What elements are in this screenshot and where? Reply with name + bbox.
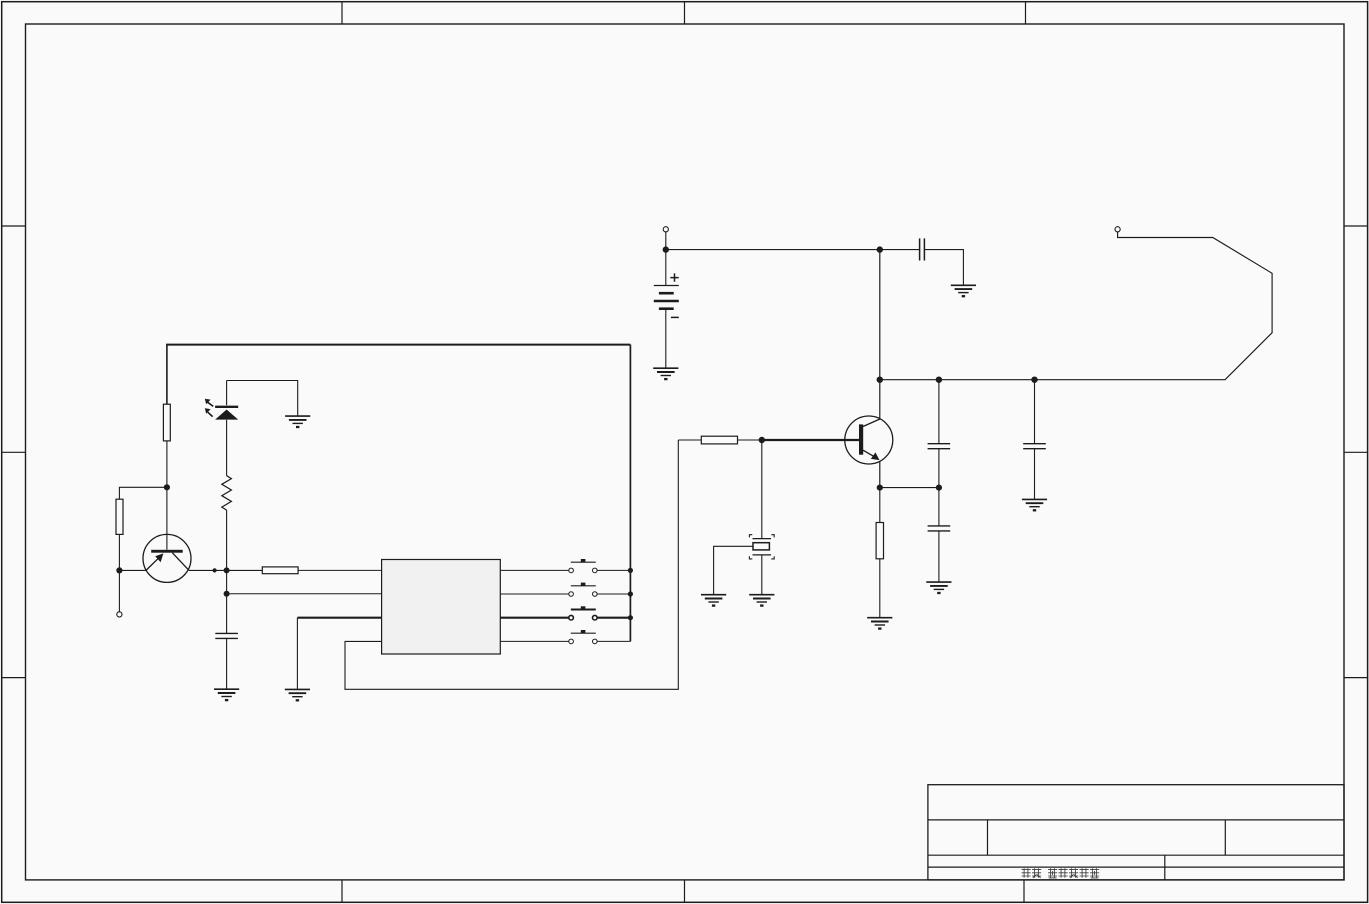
wire IC to switch S3 xyxy=(500,617,569,619)
title block row lines xyxy=(928,820,1344,867)
transistor Q1 (PNP) xyxy=(143,534,191,582)
capacitor C5 xyxy=(215,633,238,638)
wire IC to switch S1 xyxy=(500,569,569,571)
ground (C5) xyxy=(214,689,239,700)
wire R2 down to terminal xyxy=(118,534,120,611)
node LED chain / line1 xyxy=(224,567,230,573)
capacitor C3 (feedback lower) xyxy=(928,526,951,531)
wire R6 down through nodes xyxy=(226,510,228,633)
crystal Y1 (SAW resonator) xyxy=(749,535,774,559)
switch S1 (push button) xyxy=(569,559,597,573)
node base junction xyxy=(164,484,170,490)
wire to Q1 emitter xyxy=(119,569,146,571)
node RF rail mid xyxy=(936,377,942,383)
LED D1 (indicator) xyxy=(205,399,238,420)
wire R5 to ground xyxy=(879,559,881,618)
wire LED anode top xyxy=(226,381,228,406)
resistor R3 (base series) xyxy=(701,436,737,444)
wire emitter node to C3 xyxy=(938,488,940,526)
antenna wire loop xyxy=(880,232,1272,380)
left border tick marks xyxy=(2,226,26,678)
node line2 junction xyxy=(224,591,230,597)
wire to R3 left xyxy=(678,439,701,441)
node emitter junction left xyxy=(116,567,122,573)
transistor Q2 (NPN oscillator) xyxy=(845,416,893,464)
wire VCC rail top (bold) xyxy=(166,344,630,346)
wire S1 to VCC rail xyxy=(597,569,630,571)
wire to capacitor C1 xyxy=(880,249,920,251)
node emitter junction xyxy=(877,485,883,491)
node rail/S2 xyxy=(628,591,633,596)
wire R4 to IC pin line 1 xyxy=(298,569,382,571)
wire IC to switch S4 xyxy=(500,640,569,642)
ground (crystal) xyxy=(749,595,774,606)
wire IC pin line 2 xyxy=(227,593,382,595)
title text 鎖文遙控馬達組 xyxy=(1022,868,1100,878)
wire Q2 base (bold) xyxy=(762,439,859,441)
wire VCC rail left drop xyxy=(166,345,168,405)
wire C5 to ground xyxy=(226,638,228,689)
ground (crystal case) xyxy=(701,595,726,606)
wire S4 to VCC rail xyxy=(597,640,630,642)
wire B+ stub xyxy=(665,232,667,250)
wire emitter to C3 xyxy=(880,487,939,489)
node rail/S1 xyxy=(628,568,633,573)
resistor R4 (line 1 series) xyxy=(262,567,298,574)
wire to R2 xyxy=(119,487,166,499)
resistor R2 xyxy=(116,499,123,534)
node battery junction xyxy=(663,246,669,252)
wire IC to switch S2 xyxy=(500,593,569,595)
wire to R5 xyxy=(879,488,881,523)
wire node to crystal xyxy=(761,440,763,538)
ground (R5) xyxy=(867,618,892,629)
terminal (key input) xyxy=(117,612,122,617)
ground (battery) xyxy=(653,368,678,379)
node small junction xyxy=(213,568,217,572)
capacitor C2 (feedback upper) xyxy=(928,444,951,449)
node RF rail right xyxy=(1031,377,1037,383)
wire C1 to ground xyxy=(924,250,963,286)
node C2/C3 junction xyxy=(936,485,942,491)
wire crystal to ground xyxy=(761,555,763,595)
wire S2 to VCC rail xyxy=(597,593,630,595)
ground (C1) xyxy=(951,285,976,296)
wire R1 to Q1 base xyxy=(166,441,168,550)
bottom border tick marks xyxy=(342,880,1024,902)
capacitor C4 (antenna tuning) xyxy=(1023,444,1046,449)
wire Q1 collector to R4 xyxy=(189,569,262,571)
battery BT1 xyxy=(654,250,679,369)
title block column dividers xyxy=(988,820,1226,880)
resistor R6 (zigzag) xyxy=(222,476,232,510)
wire C2 to emitter node xyxy=(938,449,940,488)
ground (C4) xyxy=(1022,499,1047,510)
wire IC pin line 4 loop to RF xyxy=(345,440,678,689)
node rail/S3 xyxy=(628,615,633,620)
switch S3 (push button) xyxy=(569,606,597,620)
resistor R1 (Q1 bias) xyxy=(163,404,170,441)
node collector rail junction xyxy=(877,246,883,252)
right border tick marks xyxy=(1344,226,1367,678)
IC U1 (encoder) xyxy=(382,560,501,655)
title block outline xyxy=(928,785,1344,880)
wire S3 to VCC rail xyxy=(597,617,630,619)
switch S4 (push button) xyxy=(569,630,597,644)
wire LED to R6 xyxy=(226,420,228,476)
wire IC pin line 3 (bold) xyxy=(297,617,381,619)
wire collector vertical xyxy=(879,250,881,419)
ground (line 3) xyxy=(285,689,310,700)
wire C4 to ground xyxy=(1034,449,1036,500)
wire Q2 emitter down xyxy=(879,462,881,488)
wire crystal case tap xyxy=(714,546,753,594)
wire LED top to ground xyxy=(227,381,298,417)
wire supply rail to C1 xyxy=(666,249,880,251)
top border tick marks xyxy=(342,2,1026,24)
ground (LED) xyxy=(285,416,310,427)
wire R3 to node xyxy=(738,439,762,441)
wire rail to C2 xyxy=(938,380,940,444)
wire C3 to ground xyxy=(938,531,940,582)
wire line3 to ground xyxy=(296,618,298,690)
node RF rail left xyxy=(877,377,883,383)
wire rail to C4 xyxy=(1034,380,1036,444)
wire VCC rail right side xyxy=(629,345,631,642)
terminal ANT (antenna) xyxy=(1115,227,1120,232)
switch S2 (push button) xyxy=(569,583,597,597)
resistor R5 (emitter) xyxy=(876,523,883,559)
node base/crystal junction xyxy=(759,437,765,443)
ground (C3) xyxy=(926,582,951,593)
terminal B+ (battery positive input) xyxy=(663,227,668,232)
capacitor C1 xyxy=(920,238,925,260)
